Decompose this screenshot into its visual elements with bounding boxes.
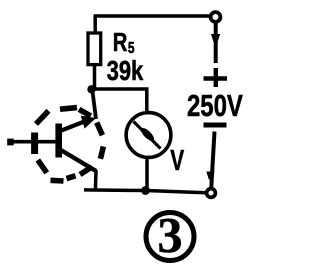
svg-text:3: 3 xyxy=(158,207,183,263)
wire resistor bottom lead xyxy=(93,64,97,88)
wire bottom rail xyxy=(84,190,206,193)
resistor label R5 xyxy=(113,28,135,57)
transistor collector line xyxy=(60,150,96,172)
transistor base bar xyxy=(55,124,62,158)
wire right rail upper xyxy=(214,22,218,63)
svg-text:250V: 250V xyxy=(187,88,244,122)
resistor value 39k xyxy=(107,56,144,87)
voltmeter needle xyxy=(134,122,161,149)
svg-text:R: R xyxy=(113,28,128,57)
label 250V xyxy=(187,88,244,122)
svg-text:V: V xyxy=(170,145,184,177)
terminal bottom right xyxy=(207,189,216,198)
resistor R5 body xyxy=(88,33,101,65)
transistor base lead xyxy=(8,140,56,144)
wire top rail xyxy=(94,14,209,18)
node junction A xyxy=(87,85,95,93)
wire collector bottom lead xyxy=(94,170,98,190)
terminal top right xyxy=(211,12,221,22)
minus sign xyxy=(204,123,227,128)
arrow on right rail lower xyxy=(206,172,214,180)
wire resistor top lead xyxy=(93,15,97,33)
figure number circle xyxy=(146,213,194,261)
base lead end tick xyxy=(7,139,14,146)
voltmeter V1 xyxy=(126,113,171,158)
transistor emitter arrowhead xyxy=(81,116,96,129)
transistor emitter line xyxy=(60,121,87,132)
voltmeter label V xyxy=(170,145,184,177)
arrow on right rail upper xyxy=(211,34,220,42)
wire right rail lower xyxy=(211,132,214,188)
node junction B xyxy=(141,186,150,195)
wire junction A to voltmeter xyxy=(92,89,147,113)
svg-text:5: 5 xyxy=(128,40,135,57)
wire voltmeter bottom lead xyxy=(145,157,149,190)
svg-text:39k: 39k xyxy=(107,56,144,87)
wire emitter top lead xyxy=(92,89,96,119)
plus sign xyxy=(204,68,228,87)
transistor Q1 dashed envelope xyxy=(35,108,104,181)
